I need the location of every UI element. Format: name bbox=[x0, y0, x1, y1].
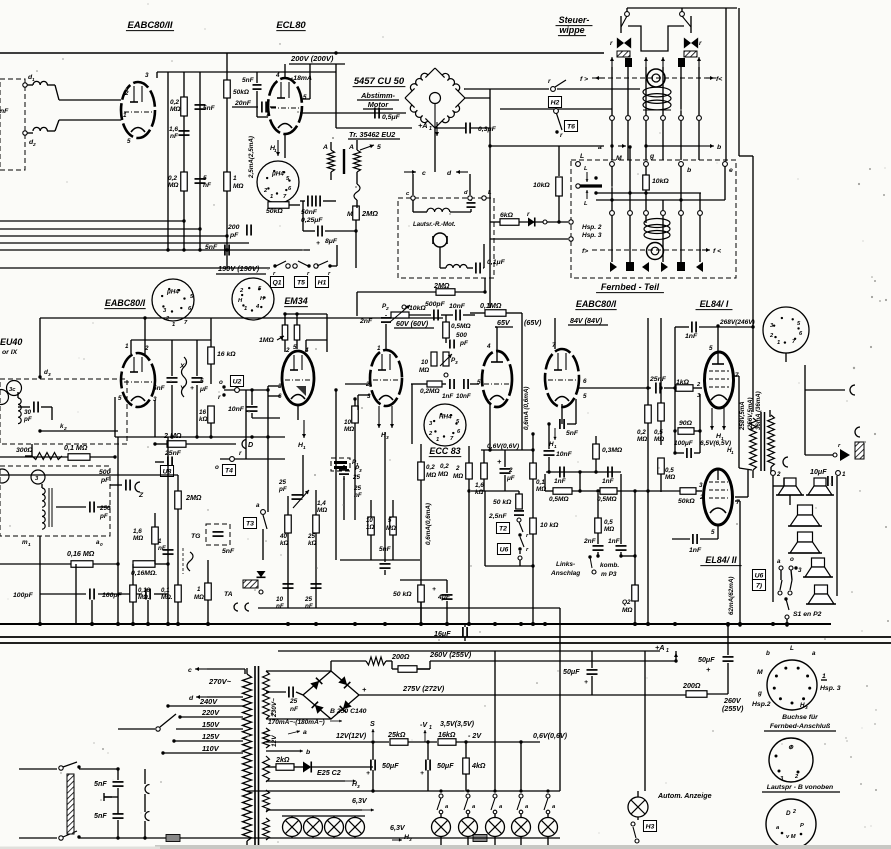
svg-text:MΩ: MΩ bbox=[317, 507, 327, 514]
svg-text:0,3μF: 0,3μF bbox=[478, 126, 497, 133]
valve socket a bbox=[152, 279, 194, 321]
svg-text:0,16: 0,16 bbox=[138, 587, 150, 594]
svg-text:0,16MΩ.: 0,16MΩ. bbox=[131, 570, 157, 577]
capacitor 5nF mid bbox=[167, 377, 178, 379]
svg-text:2: 2 bbox=[385, 306, 389, 312]
wire x675 column bbox=[674, 327, 676, 453]
pentode EL84/I V8 bbox=[705, 352, 734, 408]
selector circle 02 bbox=[0, 390, 9, 405]
svg-text:+: + bbox=[584, 679, 588, 686]
svg-text:7): 7) bbox=[756, 583, 763, 590]
coil EU40 bbox=[18, 398, 21, 424]
armature block 1 bbox=[625, 58, 632, 67]
capacitor 10nF V7 bbox=[544, 450, 555, 452]
svg-text:o: o bbox=[790, 556, 794, 563]
svg-text:110V: 110V bbox=[202, 744, 220, 753]
svg-text:10nF: 10nF bbox=[456, 393, 471, 400]
svg-text:50 kΩ: 50 kΩ bbox=[393, 591, 412, 598]
svg-text:16: 16 bbox=[199, 409, 207, 416]
svg-text:10kΩ: 10kΩ bbox=[409, 305, 426, 312]
resistor 1M bbox=[224, 172, 231, 191]
svg-text:0,6V(0,6V): 0,6V(0,6V) bbox=[533, 732, 568, 740]
svg-text:T2: T2 bbox=[499, 526, 507, 533]
svg-text:25: 25 bbox=[352, 474, 361, 481]
wire V6 top stem bbox=[496, 327, 498, 362]
svg-text:6: 6 bbox=[583, 378, 587, 385]
wire b arrow bbox=[646, 145, 700, 147]
capacitor 0,1uF bbox=[475, 263, 477, 274]
svg-text:Hsp. 3: Hsp. 3 bbox=[582, 232, 602, 239]
svg-text:258V,5mA: 258V,5mA bbox=[739, 402, 746, 432]
resistor 2M right bbox=[355, 220, 357, 268]
svg-text:EABC80/II: EABC80/II bbox=[127, 20, 172, 31]
armature arrow 1 bbox=[611, 57, 613, 70]
wire bus rows left bbox=[0, 220, 184, 222]
wire mains line lower bbox=[19, 837, 57, 839]
capacitor 8uF bbox=[302, 201, 304, 231]
resistor 5M v bbox=[390, 517, 397, 535]
svg-text:50μF: 50μF bbox=[698, 656, 715, 664]
svg-text:M: M bbox=[616, 155, 622, 162]
svg-text:0: 0 bbox=[100, 542, 103, 548]
svg-text:10nF: 10nF bbox=[449, 303, 466, 310]
svg-text:7: 7 bbox=[266, 111, 270, 118]
svg-text:a: a bbox=[777, 558, 781, 565]
svg-text:b: b bbox=[766, 650, 770, 657]
svg-text:1: 1 bbox=[28, 542, 31, 548]
steuerwippe motor bbox=[647, 69, 665, 87]
resistor 2M under bbox=[466, 463, 473, 479]
svg-text:L: L bbox=[580, 153, 584, 160]
wire x246 drop bbox=[245, 390, 247, 459]
wire 6,3V bus bbox=[247, 790, 560, 792]
svg-text:0,1μF: 0,1μF bbox=[487, 259, 506, 266]
svg-text:MΩ: MΩ bbox=[386, 525, 396, 532]
resistor 0,5M h2 bbox=[600, 488, 617, 495]
svg-text:Q2: Q2 bbox=[622, 599, 631, 606]
capacitor 1nF 10nF pair bbox=[449, 379, 451, 389]
svg-text:62mA(62mA): 62mA(62mA) bbox=[728, 577, 735, 616]
svg-text:3: 3 bbox=[357, 784, 360, 790]
svg-text:μH4: μH4 bbox=[271, 171, 284, 178]
svg-text:10μF: 10μF bbox=[810, 468, 827, 476]
svg-text:0,1 MΩ: 0,1 MΩ bbox=[64, 444, 88, 452]
fuse on bottom line b bbox=[473, 835, 487, 842]
svg-text:0,5MΩ: 0,5MΩ bbox=[451, 323, 471, 330]
svg-text:Hsp.2: Hsp.2 bbox=[752, 701, 771, 708]
wippe contact bar L bbox=[580, 184, 602, 187]
triode V6 bbox=[482, 351, 512, 407]
svg-text:50 kΩ: 50 kΩ bbox=[493, 499, 512, 506]
capacitor 1nF c1 bbox=[559, 467, 561, 478]
wire bus 190V bbox=[0, 267, 270, 269]
svg-text:2MΩ: 2MΩ bbox=[361, 209, 378, 218]
switch autom bbox=[631, 822, 635, 826]
coil d2 bbox=[23, 131, 27, 135]
tag U2 bbox=[230, 376, 243, 387]
wire right rail x726 bbox=[725, 8, 727, 161]
svg-text:Buchse für: Buchse für bbox=[782, 714, 818, 721]
wire coil to tube pin2 bbox=[59, 99, 121, 101]
dashed box P1 bbox=[331, 458, 350, 471]
svg-text:T4: T4 bbox=[225, 468, 233, 475]
svg-text:10: 10 bbox=[366, 517, 373, 524]
svg-text:g: g bbox=[649, 153, 655, 160]
svg-text:125V: 125V bbox=[202, 732, 220, 741]
svg-text:a: a bbox=[256, 502, 260, 509]
wire speaker taps bbox=[769, 410, 771, 417]
resistor 1M pair bbox=[282, 325, 288, 340]
svg-text:5nF: 5nF bbox=[94, 812, 107, 820]
resistor 2M fb bbox=[436, 289, 455, 296]
wire box to 2M line bbox=[484, 278, 486, 292]
svg-text:μF: μF bbox=[199, 386, 209, 393]
capacitor 5nF b bbox=[195, 178, 206, 180]
tag U8 bbox=[160, 466, 173, 477]
svg-text:T5: T5 bbox=[297, 280, 305, 287]
svg-text:pF: pF bbox=[23, 416, 32, 423]
svg-text:50kΩ: 50kΩ bbox=[678, 498, 695, 505]
svg-text:EU40: EU40 bbox=[0, 337, 22, 347]
resistor 0,1M v bbox=[175, 585, 182, 602]
wire tube1 top pins bbox=[130, 340, 132, 354]
wire p2 row bbox=[409, 314, 431, 316]
label 170mA arrow bbox=[330, 720, 342, 722]
svg-text:0,6mA (0,6mA): 0,6mA (0,6mA) bbox=[523, 386, 530, 430]
wire relay bridge bbox=[628, 26, 684, 51]
contact circle left top bbox=[625, 12, 630, 17]
wire A resistors bbox=[330, 142, 332, 150]
hook Z bbox=[135, 482, 140, 492]
svg-text:2: 2 bbox=[455, 465, 460, 472]
wire y340 bus bbox=[131, 339, 211, 341]
svg-text:500: 500 bbox=[456, 332, 467, 339]
tag T6 bbox=[564, 121, 577, 132]
svg-text:220V: 220V bbox=[201, 708, 220, 717]
svg-text:200: 200 bbox=[227, 224, 240, 231]
armature triangle 1 bbox=[610, 262, 617, 272]
svg-text:5nF: 5nF bbox=[205, 244, 218, 251]
resistor 10k left bbox=[558, 146, 560, 176]
svg-text:1MΩ: 1MΩ bbox=[259, 337, 274, 344]
svg-text:a: a bbox=[598, 144, 602, 151]
svg-text:a: a bbox=[303, 729, 307, 736]
resistor 10k centre bbox=[530, 518, 537, 534]
triode EABC80/II V1 bbox=[121, 82, 155, 138]
secondary 6,3V winding b bbox=[263, 818, 270, 840]
svg-text:+A: +A bbox=[655, 643, 665, 652]
dashed box EU40 input bbox=[0, 379, 127, 444]
svg-text:U6: U6 bbox=[500, 547, 509, 554]
wire V6 bottom bbox=[489, 405, 491, 450]
svg-text:Lautspr - B vonoben: Lautspr - B vonoben bbox=[767, 784, 833, 791]
svg-text:1: 1 bbox=[158, 538, 162, 545]
svg-text:90Ω: 90Ω bbox=[679, 420, 693, 427]
svg-text:TG: TG bbox=[191, 533, 201, 540]
svg-text:Fernbed-Anschluß: Fernbed-Anschluß bbox=[770, 723, 830, 730]
svg-text:(65V): (65V) bbox=[524, 319, 542, 327]
armature square 2 bbox=[677, 262, 685, 271]
svg-text:pF: pF bbox=[459, 340, 469, 347]
wire vertical x168 bbox=[167, 72, 169, 250]
svg-text:3: 3 bbox=[699, 482, 703, 489]
resistor 0,1M bbox=[68, 454, 90, 461]
secondary aux winding bbox=[263, 756, 270, 782]
svg-text:kΩ: kΩ bbox=[280, 540, 289, 547]
svg-text:+: + bbox=[366, 770, 370, 777]
svg-text:10 kΩ: 10 kΩ bbox=[540, 522, 559, 529]
valve socket ECC83 bbox=[424, 404, 466, 446]
svg-text:MΩ: MΩ bbox=[637, 436, 647, 443]
relay contact left bbox=[620, 16, 622, 33]
svg-text:500pF: 500pF bbox=[425, 301, 446, 308]
svg-text:EL84/ II: EL84/ II bbox=[705, 555, 737, 565]
svg-text:100pF: 100pF bbox=[13, 592, 34, 599]
capacitor 5nF top bbox=[253, 84, 262, 86]
svg-text:1: 1 bbox=[233, 175, 237, 182]
svg-text:1: 1 bbox=[125, 343, 129, 350]
svg-text:MΩ: MΩ bbox=[453, 473, 463, 480]
svg-text:0,1: 0,1 bbox=[161, 587, 170, 594]
svg-text:-18mA: -18mA bbox=[291, 75, 312, 82]
pentode ECL80 V2 bbox=[268, 78, 302, 134]
svg-text:2: 2 bbox=[32, 142, 36, 148]
capacitor P3 top bbox=[339, 469, 349, 471]
svg-text:270V~: 270V~ bbox=[208, 677, 232, 686]
box top contacts bbox=[411, 196, 415, 200]
tag T5 bbox=[294, 277, 307, 288]
wire x168 drop mid bbox=[167, 437, 169, 624]
svg-text:⊕: ⊕ bbox=[788, 744, 794, 751]
resistor 0,5M v5 bbox=[443, 322, 450, 338]
label c arrow bbox=[404, 171, 416, 173]
bus y624 junction dots bbox=[38, 622, 42, 626]
contact row y118 bbox=[611, 67, 613, 115]
wire y580 segment bbox=[400, 579, 447, 581]
resistor 0,2M lower bbox=[181, 172, 188, 191]
svg-text:12V(12V): 12V(12V) bbox=[336, 732, 367, 740]
svg-text:5nF: 5nF bbox=[94, 780, 107, 788]
wire vertical x200 bbox=[199, 72, 201, 250]
svg-text:2: 2 bbox=[124, 90, 129, 97]
svg-text:MΩ: MΩ bbox=[419, 367, 429, 374]
wire x268 drop2 bbox=[267, 437, 269, 459]
wire V7 cathode net bbox=[561, 404, 563, 424]
svg-text:pF: pF bbox=[99, 513, 108, 520]
svg-text:0,6V(0,6V): 0,6V(0,6V) bbox=[487, 443, 520, 450]
svg-text:60V (60V): 60V (60V) bbox=[396, 320, 429, 328]
wire y491 centre bbox=[545, 490, 553, 492]
steuerwippe coil bbox=[643, 87, 671, 97]
resistor 200 box bbox=[398, 666, 417, 673]
fernbed coil bbox=[644, 219, 670, 228]
svg-text:25kΩ: 25kΩ bbox=[387, 731, 406, 739]
IF coil pair bbox=[42, 488, 45, 507]
socket fernbed circle bbox=[769, 738, 813, 782]
svg-text:30: 30 bbox=[24, 409, 32, 416]
armature arrow 4 bbox=[698, 57, 700, 70]
speaker 1a bbox=[784, 478, 796, 486]
svg-text:f >: f > bbox=[580, 76, 588, 83]
svg-text:MΩ: MΩ bbox=[665, 474, 675, 481]
diode fernbed bbox=[528, 218, 535, 227]
wire Hsp lines bbox=[490, 238, 568, 240]
resistor 25k bbox=[313, 515, 320, 533]
svg-text:EL84/ I: EL84/ I bbox=[700, 299, 729, 309]
svg-text:wippe: wippe bbox=[559, 25, 584, 35]
svg-text:A: A bbox=[348, 144, 354, 151]
EM34 target pattern bbox=[296, 386, 306, 396]
svg-text:MΩ: MΩ bbox=[654, 436, 664, 443]
svg-text:nF: nF bbox=[0, 108, 9, 115]
wire 230V taps bbox=[266, 670, 331, 672]
svg-text:ECC 83: ECC 83 bbox=[429, 446, 460, 456]
svg-text:D: D bbox=[248, 441, 253, 449]
capacitor 5nF V7 bbox=[559, 419, 561, 429]
capacitor 5nF a bbox=[195, 104, 206, 106]
wire tube bottom bus y437 bbox=[115, 436, 285, 438]
bridge rectifier B250 bbox=[303, 671, 359, 719]
svg-text:1: 1 bbox=[822, 673, 826, 680]
resistor 0,5M v centre bbox=[595, 518, 602, 533]
svg-text:1: 1 bbox=[429, 725, 432, 731]
svg-text:ECL80: ECL80 bbox=[276, 20, 306, 31]
svg-text:1: 1 bbox=[303, 445, 306, 451]
svg-text:10: 10 bbox=[344, 419, 352, 426]
tag H2 bbox=[548, 97, 561, 108]
svg-text:1nF: 1nF bbox=[602, 478, 615, 485]
svg-text:m P3: m P3 bbox=[601, 571, 617, 578]
svg-text:HH4: HH4 bbox=[439, 414, 452, 421]
svg-text:200Ω: 200Ω bbox=[391, 653, 410, 661]
capacitor 20nF bbox=[261, 102, 263, 113]
top edge contact circles bbox=[576, 162, 581, 167]
resistor 50k el84ii bbox=[680, 488, 696, 495]
armature arrow 2 bbox=[645, 57, 647, 70]
label c arrow 270V bbox=[195, 668, 207, 670]
svg-text:4kΩ: 4kΩ bbox=[471, 762, 486, 770]
svg-text:X: X bbox=[179, 363, 185, 370]
resistor 1,6k below V6 bbox=[481, 463, 488, 479]
svg-text:e: e bbox=[729, 167, 733, 174]
vibrator S symbol bbox=[187, 552, 193, 571]
resistor 2M v x178 bbox=[175, 491, 182, 509]
svg-text:8μF: 8μF bbox=[325, 238, 338, 245]
svg-text:MΩ.: MΩ. bbox=[138, 594, 150, 601]
svg-text:nF: nF bbox=[170, 133, 179, 140]
wire y560 bus segment bbox=[340, 559, 420, 561]
svg-text:3: 3 bbox=[798, 567, 802, 574]
svg-text:Fernbed - Teil: Fernbed - Teil bbox=[601, 282, 660, 292]
wire EM34 pins 3 6 bbox=[268, 385, 280, 387]
svg-text:1: 1 bbox=[356, 462, 359, 468]
svg-text:3: 3 bbox=[48, 372, 51, 378]
dashed box IF can bbox=[0, 466, 110, 536]
wire hooks column bbox=[144, 794, 146, 812]
svg-text:5: 5 bbox=[477, 379, 481, 386]
wire row y200 bbox=[596, 199, 725, 201]
capacitor 50nF bbox=[307, 196, 309, 207]
wire bottom right vertical x645 bbox=[644, 651, 646, 791]
svg-text:pF: pF bbox=[100, 477, 110, 484]
svg-text:6,3V: 6,3V bbox=[352, 797, 368, 805]
svg-text:2: 2 bbox=[699, 494, 704, 501]
triode V7 bbox=[545, 349, 579, 407]
svg-text:1: 1 bbox=[274, 148, 277, 154]
svg-text:1nF: 1nF bbox=[689, 547, 702, 554]
wire bus y475 bbox=[0, 474, 178, 476]
wire right rail x739 bbox=[738, 8, 740, 156]
wire bus y643 bbox=[0, 642, 891, 644]
capacitor 5uF bbox=[192, 377, 203, 379]
svg-text:1: 1 bbox=[436, 437, 439, 443]
svg-text:Steuer-: Steuer- bbox=[559, 15, 590, 25]
tag T2 bbox=[496, 523, 509, 534]
svg-text:25: 25 bbox=[307, 533, 316, 540]
antenna coupling dashed box top-left bbox=[0, 79, 25, 170]
svg-text:or IX: or IX bbox=[2, 349, 18, 356]
speaker 5 bbox=[815, 585, 828, 594]
svg-text:+A: +A bbox=[418, 121, 428, 130]
svg-text:2kΩ: 2kΩ bbox=[275, 756, 290, 764]
triode V5 bbox=[370, 350, 402, 406]
label d arrow bbox=[196, 696, 207, 698]
valve socket b bbox=[232, 278, 274, 320]
svg-text:2: 2 bbox=[792, 809, 796, 815]
wire bridge top bbox=[330, 661, 332, 671]
svg-text:A: A bbox=[322, 144, 328, 151]
svg-text:6kΩ: 6kΩ bbox=[500, 212, 514, 219]
svg-text:c: c bbox=[188, 667, 192, 674]
svg-text:MΩ.: MΩ. bbox=[161, 594, 173, 601]
wire EL84II pin7 down bbox=[739, 501, 741, 625]
diode right edge bbox=[833, 453, 837, 457]
svg-text:E25 C2: E25 C2 bbox=[317, 769, 341, 777]
wire x344 ext bbox=[343, 478, 345, 520]
wire top bus 200V bbox=[0, 52, 604, 54]
svg-text:1: 1 bbox=[377, 345, 381, 352]
capacitor 1nF el84ii bbox=[692, 534, 694, 544]
wire x303 drop bbox=[302, 455, 304, 497]
resistor 300ohm bbox=[32, 453, 62, 460]
svg-text:5: 5 bbox=[203, 175, 207, 182]
wire selector feed bbox=[118, 728, 155, 730]
svg-text:260V: 260V bbox=[723, 697, 742, 705]
secondary 230V winding bbox=[263, 671, 270, 719]
motor 5457 winding diamond bbox=[405, 88, 415, 98]
svg-text:MΩ: MΩ bbox=[344, 426, 354, 433]
wire grid bus y72 bbox=[157, 71, 336, 73]
svg-text:P: P bbox=[800, 823, 804, 829]
svg-text:240V: 240V bbox=[199, 697, 218, 706]
svg-text:kΩ: kΩ bbox=[475, 489, 484, 496]
svg-text:f <: f < bbox=[713, 248, 721, 255]
wire k2 line bbox=[40, 430, 118, 432]
svg-text:0,16 MΩ: 0,16 MΩ bbox=[67, 550, 95, 558]
resistor 0,16M row2 bbox=[133, 561, 155, 568]
svg-text:1Ω: 1Ω bbox=[366, 524, 374, 531]
svg-text:0,5: 0,5 bbox=[654, 429, 663, 436]
svg-text:0,2: 0,2 bbox=[440, 463, 449, 470]
resistor A right bbox=[354, 150, 361, 172]
wire EM34 cathode bbox=[297, 404, 299, 420]
svg-text:0,2: 0,2 bbox=[170, 99, 179, 106]
svg-text:+: + bbox=[420, 770, 424, 777]
svg-text:0,2MΩ: 0,2MΩ bbox=[420, 388, 440, 395]
svg-text:MΩ: MΩ bbox=[426, 472, 436, 479]
hook top right bbox=[850, 385, 855, 395]
svg-text:2: 2 bbox=[285, 347, 290, 354]
